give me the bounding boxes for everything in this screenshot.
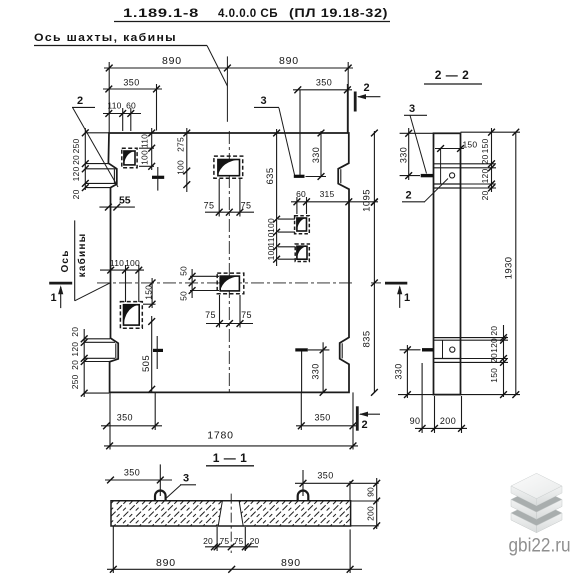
svg-text:120: 120: [70, 342, 80, 357]
dim 350 section left: [105, 464, 172, 496]
center vertical axis (dash-dot): [228, 131, 230, 392]
side view bottom dims 90 / 200: [415, 363, 467, 433]
svg-text:20: 20: [70, 327, 80, 337]
svg-text:20: 20: [489, 326, 499, 336]
svg-text:110: 110: [266, 232, 276, 246]
svg-text:100: 100: [125, 258, 140, 268]
side view column outline: [434, 133, 461, 394]
svg-text:1930: 1930: [504, 257, 515, 280]
dim 50/50 at bottom-center loop: [190, 269, 219, 298]
dim 330 side-view top: [400, 128, 434, 180]
top embed tab: [421, 174, 434, 177]
svg-text:20: 20: [70, 360, 80, 370]
svg-text:100: 100: [176, 160, 186, 175]
svg-text:75: 75: [234, 536, 244, 546]
dims 20/75/75/20 at section center gap: [205, 527, 258, 551]
small loop right B: [295, 244, 309, 262]
svg-text:2: 2: [77, 95, 83, 107]
svg-text:100: 100: [140, 150, 150, 165]
section strip with concrete hatch: [111, 501, 351, 526]
dim 75/75 under top-center loop: [205, 179, 254, 217]
svg-text:150: 150: [463, 140, 478, 150]
dim 150 (axis to bottom-left loop): [143, 278, 156, 308]
svg-text:20: 20: [71, 155, 81, 165]
svg-text:890: 890: [162, 55, 182, 67]
svg-text:75: 75: [219, 536, 229, 546]
horizontal cabin axis (dash-dot): [97, 282, 352, 284]
svg-text:1.189.1-8: 1.189.1-8: [123, 6, 199, 20]
svg-text:2: 2: [361, 419, 367, 431]
svg-text:1 — 1: 1 — 1: [213, 451, 248, 465]
svg-text:1: 1: [404, 292, 410, 304]
svg-text:60: 60: [296, 189, 306, 199]
dimension 350 top-left: [103, 84, 162, 131]
svg-text:835: 835: [362, 330, 373, 347]
svg-text:110: 110: [110, 258, 124, 268]
callout 3 (plan) with leader to top-right embed mark: [254, 95, 295, 175]
svg-text:Ось шахты, кабины: Ось шахты, кабины: [34, 32, 177, 44]
svg-text:110: 110: [140, 134, 150, 148]
embed plate mark top-right: [294, 175, 305, 178]
top slab: [511, 473, 562, 505]
svg-text:330: 330: [311, 363, 321, 379]
middle slab: [511, 487, 562, 519]
svg-text:gbi22.ru: gbi22.ru: [509, 536, 571, 557]
section mark 2 (bottom): [357, 406, 380, 431]
svg-text:120: 120: [480, 169, 490, 184]
svg-text:20: 20: [489, 353, 499, 363]
svg-text:890: 890: [279, 55, 299, 67]
svg-text:3: 3: [183, 473, 189, 485]
svg-text:120: 120: [489, 338, 499, 353]
svg-text:150: 150: [489, 368, 499, 383]
left dim chain top: 250 20 120 20: [85, 128, 116, 190]
dim 90/200 section right edge: [351, 478, 379, 529]
svg-text:275: 275: [176, 137, 186, 152]
right chain 20/120/20/150 (bottom): [461, 325, 521, 397]
svg-text:150: 150: [480, 139, 490, 154]
svg-text:1780: 1780: [207, 430, 234, 442]
dimension 55 at left notch: [99, 206, 134, 208]
embed plate mark bottom-right: [295, 348, 308, 351]
section mark 1 (right, near side view): [385, 283, 410, 308]
svg-text:20: 20: [71, 189, 81, 199]
section mark 2 (top): [355, 82, 380, 112]
bottom dim 1780: [104, 445, 358, 447]
svg-text:кабины: кабины: [76, 233, 88, 278]
top embed bands: [434, 164, 461, 188]
svg-text:1095: 1095: [362, 189, 373, 212]
dimension 110 60 top-left: [103, 108, 141, 131]
label Ось кабины (rotated) with leader to axis: [60, 220, 110, 300]
svg-text:50: 50: [179, 266, 189, 276]
small loop right A: [295, 216, 310, 234]
callout 3 (section): [167, 473, 197, 498]
svg-text:75: 75: [204, 201, 215, 211]
svg-text:20: 20: [480, 155, 490, 165]
svg-text:20: 20: [480, 191, 490, 201]
callout 2 (side view) leader to bottom plate: [402, 179, 448, 202]
dim 60/315 (right loops to edge): [291, 197, 378, 214]
loop top-center: [214, 156, 243, 178]
dim 330 bottom-right (embed to bottom edge): [308, 342, 329, 392]
svg-text:75: 75: [205, 310, 216, 320]
svg-text:90: 90: [366, 487, 376, 497]
svg-text:55: 55: [119, 195, 131, 207]
svg-text:2 — 2: 2 — 2: [435, 68, 470, 82]
bottom dim 350 left: [101, 392, 162, 449]
svg-text:200: 200: [366, 506, 376, 521]
dim 110/100 above bottom-left loop: [100, 265, 144, 302]
title 2-2: [424, 68, 482, 84]
dim 75/75 under bottom-center loop: [206, 295, 253, 328]
svg-text:330: 330: [311, 147, 321, 163]
svg-text:635: 635: [265, 167, 276, 184]
svg-text:50: 50: [179, 291, 189, 301]
loop bottom-center: [217, 273, 244, 294]
title 1-1: [206, 451, 254, 466]
svg-text:350: 350: [123, 78, 139, 88]
plan view: slab outline with edge notches: [108, 133, 349, 392]
svg-text:60: 60: [126, 101, 136, 111]
svg-text:330: 330: [399, 147, 409, 163]
svg-text:200: 200: [440, 416, 456, 426]
bottom slab: [511, 500, 562, 532]
svg-text:350: 350: [316, 78, 332, 88]
section mark 1 (left): [49, 283, 72, 308]
svg-text:505: 505: [141, 355, 152, 372]
svg-text:3: 3: [260, 95, 266, 107]
dim 505 (loop to bottom edge): [151, 316, 153, 392]
svg-text:2: 2: [363, 82, 369, 94]
dim 150 side-view top (plate width): [435, 148, 464, 150]
dim 330 side-view bottom: [398, 345, 434, 398]
dim 635 + 100/110/100 chain (right loops): [277, 129, 296, 266]
svg-text:20: 20: [250, 536, 260, 546]
center axis in section: [230, 494, 232, 553]
svg-text:100: 100: [266, 246, 276, 261]
dim 1930 overall height: [515, 132, 517, 394]
right chain 150/20/120/20 (top): [461, 128, 521, 192]
bottom embed bands: [434, 338, 461, 363]
dim 890/890 section bottom: [107, 526, 362, 573]
callout 3 (side view) leader to top tab: [404, 103, 427, 174]
svg-text:150: 150: [144, 285, 154, 300]
notch inner double lines: [114, 169, 342, 358]
svg-text:2: 2: [405, 190, 411, 202]
dim chain 275/100: [186, 128, 188, 192]
svg-text:350: 350: [314, 413, 330, 423]
svg-text:110: 110: [107, 101, 121, 111]
dim 1095 / 835 right of plan: [373, 131, 375, 392]
svg-text:Ось: Ось: [60, 249, 71, 272]
dimension 350 top-right: [293, 84, 352, 175]
left dim chain bottom: 20 120 20 250: [84, 329, 115, 397]
dim 350 section right: [295, 470, 379, 501]
embed plate mark top-left: [152, 176, 164, 179]
loop top-left (lifting loop opening): [122, 148, 137, 168]
svg-text:350: 350: [117, 413, 133, 423]
dim 330 top-right (top edge to embed): [306, 131, 327, 177]
bottom embed tab: [422, 348, 434, 351]
loop bottom-left: [120, 302, 142, 329]
svg-text:4.0.0.0 СБ: 4.0.0.0 СБ: [218, 6, 278, 20]
svg-text:3: 3: [409, 103, 415, 115]
lifting loop right (section): [298, 490, 309, 500]
svg-text:890: 890: [281, 557, 301, 569]
embed plate mark bottom-left: [153, 349, 163, 352]
svg-text:250: 250: [70, 374, 80, 389]
dim chain 110/100 at loop top-left: [139, 128, 154, 170]
svg-text:90: 90: [410, 416, 421, 426]
bottom dim 350 right: [296, 392, 357, 449]
label: Ось шахты, кабины with leader to center axis: [34, 32, 227, 122]
svg-text:1: 1: [50, 292, 56, 304]
svg-text:100: 100: [266, 218, 276, 233]
svg-text:315: 315: [320, 189, 335, 199]
callout 2 top-left with leader to notch: [72, 95, 118, 187]
svg-text:330: 330: [394, 363, 404, 379]
svg-text:350: 350: [317, 471, 333, 481]
svg-text:75: 75: [241, 201, 252, 211]
svg-text:120: 120: [71, 167, 81, 182]
title heading 1.189.1-8 4.0.0.0 СБ (ПЛ 19.18-32): [114, 6, 390, 22]
svg-text:(ПЛ 19.18-32): (ПЛ 19.18-32): [289, 6, 388, 20]
svg-text:20: 20: [203, 536, 213, 546]
svg-text:75: 75: [241, 310, 252, 320]
svg-text:250: 250: [71, 139, 81, 154]
svg-text:350: 350: [124, 468, 140, 478]
svg-text:890: 890: [156, 557, 176, 569]
center trapezoid gap (white): [218, 501, 243, 526]
lifting loop left (section): [155, 491, 166, 501]
dimension 890+890 top: [104, 62, 353, 133]
